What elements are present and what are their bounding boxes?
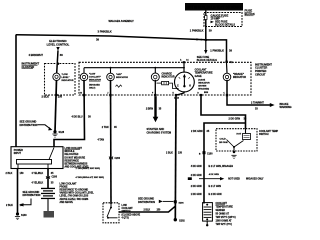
air indicator bulb (107, 68, 129, 88)
svg-text:MODULE: MODULE (65, 151, 75, 153)
connector C200 on probe wire (46, 176, 58, 179)
svg-text:DISTRIBUTION: DISTRIBUTION (138, 201, 155, 204)
svg-text:W/GAGES): W/GAGES) (198, 88, 209, 91)
svg-text:(CLOSED ABOVE: (CLOSED ABOVE (122, 213, 141, 216)
wire junction right to C2 (206, 40, 227, 62)
svg-text:ABOVE LEVEL: 50K OHMS: ABOVE LEVEL: 50K OHMS (60, 198, 89, 201)
svg-text:BLOCK DETAILS: BLOCK DETAILS (215, 23, 235, 26)
label 2 BLK 150 (166, 151, 183, 154)
module internals (14, 148, 54, 169)
label 4 BRN/WHT 38 (29, 53, 64, 57)
svg-text:4 YEL/BLK: 4 YEL/BLK (32, 181, 44, 184)
wire banner to fuse (205, 11, 207, 16)
svg-text:PROBE: PROBE (60, 186, 69, 188)
svg-text:55 OHMS AT: 55 OHMS AT (216, 212, 230, 215)
brake warning destination (280, 103, 292, 109)
svg-text:2 DK GRN: 2 DK GRN (191, 130, 203, 133)
svg-text:4 DK GRN: 4 DK GRN (191, 165, 202, 168)
svg-text:TMP 257°F (125°C): TMP 257°F (125°C) (216, 217, 236, 219)
branch to sender (204, 123, 246, 204)
svg-text:C200: C200 (52, 177, 58, 179)
module power feed wire label 2 BLK 150 (6, 172, 25, 175)
svg-text:“AIR”: “AIR” (116, 73, 122, 76)
module probe wire (47, 169, 49, 189)
fuse F4 GAUGE FUSE 10 AMP (205, 13, 229, 20)
gage pin square on top border (180, 59, 189, 64)
label 3 PNK/BLK 39 (96, 30, 112, 42)
low coolant probe text (60, 182, 95, 204)
see fuse block details stub arrow (197, 40, 217, 62)
svg-text:1 DK GRN: 1 DK GRN (191, 194, 202, 196)
svg-text:INDICATOR: INDICATOR (198, 82, 210, 85)
svg-text:LEVEL CONTROL: LEVEL CONTROL (47, 42, 70, 46)
coolant temperature sender symbol (203, 203, 213, 227)
svg-text:150: 150 (58, 95, 63, 99)
svg-text:CLUSTER: CLUSTER (22, 65, 35, 69)
see fuse block details note (in fuse box) (211, 20, 236, 26)
low coolant switch text (122, 205, 141, 219)
svg-text:2 DK GRN: 2 DK GRN (191, 186, 202, 188)
svg-text:“LOW: “LOW (62, 74, 69, 76)
svg-text:RESISTANCE TO GROUND: RESISTANCE TO GROUND (60, 189, 89, 192)
connector C200 on wire (109, 156, 121, 160)
svg-text:DO NOT MEASURE: DO NOT MEASURE (65, 156, 86, 159)
svg-text:3 PNK/BLK: 3 PNK/BLK (98, 30, 112, 34)
svg-text:4 DK GRN: 4 DK GRN (209, 173, 219, 176)
svg-text:BETWEEN HARNESS: BETWEEN HARNESS (65, 163, 88, 166)
resistor box beside charge indicator (157, 81, 179, 88)
low coolant module text block (65, 147, 90, 169)
power banner HOT IN RUN (185, 3, 243, 11)
switch ground (231, 151, 236, 158)
see ground distribution note 1 (20, 121, 53, 131)
svg-text:W/GAGES ASSEMBLY: W/GAGES ASSEMBLY (109, 20, 135, 23)
svg-text:WARNING: WARNING (280, 106, 292, 109)
svg-text:INDICATOR: INDICATOR (116, 76, 128, 79)
svg-text:CIRCUIT: CIRCUIT (255, 73, 266, 77)
label 2 TAN 35 (102, 126, 118, 129)
svg-text:LOW COOLANT: LOW COOLANT (60, 182, 78, 185)
temp sender wire pin D down and over (201, 96, 246, 128)
svg-text:ONLY): ONLY) (89, 88, 96, 90)
svg-text:S128: S128 (59, 131, 65, 134)
svg-text:INSTRUMENT: INSTRUMENT (255, 62, 272, 66)
svg-text:CLUSTER: CLUSTER (255, 66, 267, 70)
svg-text:2 DK GRN: 2 DK GRN (229, 117, 241, 120)
pin G connector C2 (221, 61, 233, 64)
left frame wire down to module (15, 35, 17, 147)
svg-text:RELOCATED: RELOCATED (65, 153, 79, 156)
wire indicator to ground splice (55, 80, 57, 132)
wire fuse down to junction S208 (205, 20, 207, 41)
labels 4 YEL/BLK 35 (32, 172, 55, 184)
svg-text:INDICATOR: INDICATOR (62, 79, 74, 82)
main cluster dashed box (79, 62, 251, 95)
gage label (195, 68, 213, 90)
svg-text:COOLANT”: COOLANT” (89, 76, 101, 79)
svg-text:C100: C100 (207, 153, 213, 155)
svg-text:185 OHM: 185 OHM (219, 142, 228, 144)
splice S206 (174, 200, 185, 204)
see ground distribution note 3 (138, 198, 174, 204)
instrument cluster printed circuit label (255, 62, 272, 76)
label 1 PNK/BLK 39 (190, 29, 212, 33)
svg-text:1 PNK/BLK: 1 PNK/BLK (190, 29, 204, 33)
wire ELC to indicator (57, 50, 58, 73)
svg-text:DISTRIBUTION: DISTRIBUTION (20, 124, 38, 127)
svg-text:2 BLK: 2 BLK (166, 151, 173, 154)
coolant temperature switch dashed box (216, 129, 257, 151)
label 2 BLK 150 (144, 209, 162, 211)
svg-text:C: C (177, 85, 179, 88)
svg-text:1 PNK/BLK: 1 PNK/BLK (210, 49, 224, 53)
low coolant switch dashed box (103, 203, 119, 223)
instrument cluster label (left) (22, 62, 40, 69)
label 2 TAN/WHT 33 (251, 102, 264, 111)
svg-text:COLD: COLD (220, 138, 227, 140)
low coolant module box (11, 147, 63, 169)
wire variant labels (76, 167, 105, 179)
label 4 DK BLU 38 (71, 115, 91, 118)
svg-text:LOW: LOW (122, 205, 128, 207)
fuse block box (204, 13, 242, 27)
charge indicator bulb (151, 68, 175, 81)
svg-text:GAGE: GAGE (195, 75, 202, 78)
svg-text:4 TAN: 4 TAN (98, 139, 105, 142)
svg-text:2 TAN: 2 TAN (102, 126, 109, 129)
svg-text:AND ABOVE: AND ABOVE (60, 201, 74, 204)
more variant rows (191, 186, 222, 196)
low coolant ind wire down-left into module (54, 80, 85, 147)
svg-text:4 TAN (W/GA A/T, W/O W/G): 4 TAN (W/GA A/T, W/O W/G) (76, 176, 105, 179)
switch symbol (107, 203, 118, 219)
svg-text:B 2 LT GRN, W/GAGES: B 2 LT GRN, W/GAGES (209, 165, 234, 168)
left cluster dashed box (45, 64, 76, 96)
brake wire down and right to brake warning (227, 80, 271, 105)
svg-text:(W/GAGES: (W/GAGES (89, 84, 100, 87)
top feed wire 3 PNK/BLK (16, 35, 206, 40)
svg-text:150: 150 (20, 172, 25, 175)
bottom border pin squares with letters (80, 92, 228, 99)
label 2 BLK 150 lower (6, 204, 24, 207)
switch internals (219, 129, 251, 151)
svg-text:ELECTRONIC: ELECTRONIC (49, 39, 67, 43)
svg-text:2 BLK: 2 BLK (144, 209, 151, 211)
svg-text:2 BLK: 2 BLK (42, 95, 50, 99)
svg-text:AND COOLANT LEVEL: AND COOLANT LEVEL (65, 166, 90, 169)
splice S128 and ground (52, 130, 64, 137)
svg-text:CHARGING SYSTEM: CHARGING SYSTEM (147, 132, 172, 135)
svg-text:1365 OHMS AT: 1365 OHMS AT (216, 219, 233, 222)
ground G202 (174, 218, 186, 223)
svg-text:2 BLK: 2 BLK (6, 172, 13, 175)
label 2 DK GRN 35 lower (191, 130, 210, 133)
label 2 DK GRN 35 upper (229, 117, 247, 120)
svg-text:(GAGE: (GAGE (198, 78, 205, 81)
svg-text:C200: C200 (115, 158, 121, 160)
svg-text:RESISTANCE: RESISTANCE (65, 159, 80, 162)
splice S130 and ground (15, 212, 27, 219)
low coolant indicator bulb (80, 68, 101, 90)
brake indicator bulb (223, 63, 246, 81)
svg-text:INSTRUMENT: INSTRUMENT (22, 62, 40, 66)
svg-text:HOT IN RUN, BULB TEST OR START: HOT IN RUN, BULB TEST OR START (187, 6, 243, 10)
svg-text:BLOCK DETAILS: BLOCK DETAILS (197, 59, 217, 62)
branch switch to splice S206 (119, 206, 175, 212)
air ind wire down to low coolant switch (110, 80, 113, 204)
not used arrow note (188, 177, 264, 181)
module ground wire (17, 169, 19, 214)
svg-text:2 BRN: 2 BRN (146, 107, 153, 110)
low level indicator bulb (53, 73, 74, 82)
svg-text:H: H (189, 85, 191, 88)
svg-text:INDICATOR: INDICATOR (162, 75, 175, 78)
svg-text:G202: G202 (179, 221, 185, 223)
svg-text:B 2 DK GRN: B 2 DK GRN (209, 194, 222, 196)
coolant temperature gage (175, 64, 195, 92)
svg-text:TEMPERATURE: TEMPERATURE (216, 205, 234, 208)
svg-text:NOT USED: NOT USED (228, 179, 240, 181)
pin square left box top (57, 63, 59, 65)
svg-text:INDICATOR: INDICATOR (233, 76, 246, 79)
svg-text:4 YEL/BLK: 4 YEL/BLK (32, 172, 44, 175)
charge output thick arrow to starter and charging system (146, 80, 171, 135)
sender text (216, 202, 236, 226)
see ground distribution note 2 (20, 191, 41, 207)
svg-text:4 DK BLU: 4 DK BLU (71, 115, 82, 118)
wire variant rows (191, 165, 234, 177)
svg-text:COOLANT: COOLANT (122, 207, 134, 210)
svg-text:39: 39 (96, 37, 99, 41)
svg-text:2 TAN/WHT: 2 TAN/WHT (251, 102, 264, 105)
svg-text:SHOWN: SHOWN (198, 86, 206, 88)
svg-text:J: J (107, 92, 108, 94)
svg-text:VARIES WITH COOLANT LEVEL: VARIES WITH COOLANT LEVEL (60, 192, 95, 195)
svg-text:150: 150 (178, 151, 183, 154)
electronic level control (47, 39, 70, 51)
pin square left box bottom (55, 94, 57, 96)
in-line connector on top wire (197, 38, 203, 40)
svg-text:SWITCH: SWITCH (259, 133, 269, 136)
connector C100 (199, 151, 213, 155)
svg-text:PRINTED: PRINTED (255, 69, 267, 73)
svg-text:BRN: BRN (204, 92, 209, 94)
switch label (259, 130, 279, 136)
svg-text:“LOW: “LOW (89, 74, 96, 76)
svg-text:W/GAGES ONLY: W/GAGES ONLY (246, 178, 264, 181)
fuse block label (245, 9, 256, 16)
svg-text:B 2 LT GRN: B 2 LT GRN (209, 186, 222, 188)
low coolant probe symbol (41, 188, 55, 218)
junction node S208 (205, 39, 208, 42)
label 1 PNK/BLK 39 (210, 49, 232, 53)
internal bus wire (84, 67, 184, 69)
svg-text:S130: S130 (21, 214, 27, 217)
svg-text:DISTRIBUTION: DISTRIBUTION (23, 194, 41, 197)
gage bottom wire to pin E (177, 91, 185, 95)
svg-text:TMP 32°F (0°C): TMP 32°F (0°C) (216, 224, 233, 226)
svg-text:2 DK GRN: 2 DK GRN (191, 175, 202, 177)
svg-text:4 QTS): 4 QTS) (122, 216, 130, 219)
cluster ground wire pin E down (174, 96, 177, 219)
svg-text:LEVEL: 700 OHM OR LESS: LEVEL: 700 OHM OR LESS (60, 196, 89, 198)
svg-text:HOT: HOT (237, 133, 242, 135)
label 2 BLK 150 (42, 95, 63, 99)
svg-text:S206: S206 (179, 202, 185, 204)
svg-text:SENDER: SENDER (216, 210, 226, 212)
svg-text:4 BRN/WHT: 4 BRN/WHT (29, 53, 44, 57)
svg-text:INPUT: INPUT (14, 152, 22, 155)
svg-text:LEVEL”: LEVEL” (62, 77, 70, 79)
svg-text:2 BLK: 2 BLK (6, 204, 13, 207)
